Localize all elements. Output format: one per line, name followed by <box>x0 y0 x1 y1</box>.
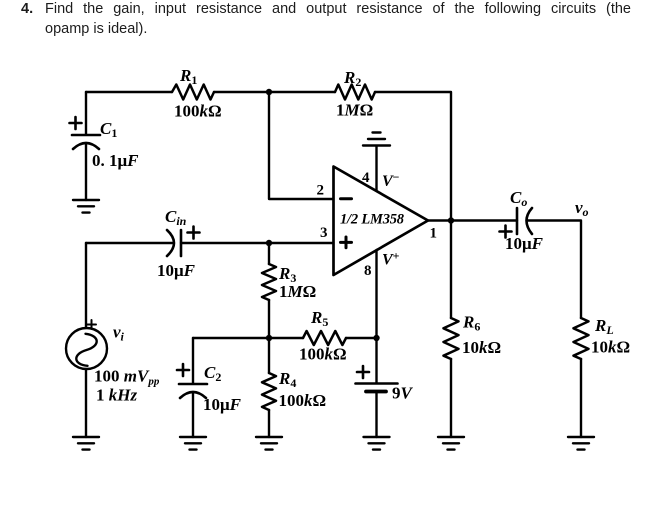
node A (R1/R2/pin-2 junction) <box>266 89 272 95</box>
capacitor C2 curved plate <box>180 392 206 398</box>
svg-text:0. 1μF: 0. 1μF <box>92 151 139 170</box>
battery V1 plus sign <box>357 366 369 378</box>
svg-text:R1: R1 <box>179 66 197 87</box>
battery short plate (-) <box>366 390 386 394</box>
wire: R2 right to output column corner <box>375 92 451 221</box>
wire: top-left corner C1 top to R1 left <box>86 91 172 93</box>
ground (vi) <box>73 437 99 450</box>
ground (RL) <box>568 437 594 450</box>
svg-text:100kΩ: 100kΩ <box>279 391 327 410</box>
svg-text:10kΩ: 10kΩ <box>591 338 630 357</box>
ground (R4) <box>256 437 282 450</box>
resistor R3 <box>262 264 276 300</box>
ground (V-, inverted above op-amp) <box>363 133 390 146</box>
svg-text:R6: R6 <box>462 313 480 334</box>
svg-text:1MΩ: 1MΩ <box>336 101 373 120</box>
svg-text:1MΩ: 1MΩ <box>279 282 316 301</box>
op-amp U1 (1/2 LM358) triangle <box>334 167 429 276</box>
capacitor Co curved plate <box>527 208 533 234</box>
battery long plate (+) <box>356 382 398 385</box>
node C (R3/R4/R5/C2 junction) <box>266 335 272 341</box>
plus sign (Cin) <box>188 227 200 239</box>
wire: R5 right to node D <box>346 337 377 339</box>
svg-text:2: 2 <box>317 183 325 199</box>
capacitor C1 wire from top wire <box>85 92 87 134</box>
svg-text:vi: vi <box>113 323 125 344</box>
wire: Co to vo corner and down <box>528 221 581 319</box>
capacitor Cin curved plate <box>167 230 174 256</box>
wire: vi column down from input row <box>85 243 87 328</box>
svg-text:100kΩ: 100kΩ <box>299 345 347 364</box>
plus sign (non-inverting input) <box>341 237 352 248</box>
svg-text:4: 4 <box>362 170 370 186</box>
svg-text:1: 1 <box>430 226 438 242</box>
wire: Cin to op-amp pin 3 (through node B) <box>181 242 334 244</box>
wire: node C down to R4 <box>268 338 270 373</box>
svg-text:10μF: 10μF <box>157 261 196 280</box>
capacitor C2 top plate <box>179 383 207 386</box>
wire: battery to ground <box>375 392 377 437</box>
wire: op-amp output to Co <box>428 219 517 221</box>
minus sign (inverting input) <box>341 197 352 200</box>
wire: output node down to R6 <box>450 221 452 319</box>
node D (R5/V+ battery junction) <box>373 335 379 341</box>
svg-text:3: 3 <box>320 225 328 241</box>
wire: R3 bottom to node C <box>268 300 270 338</box>
wire: C1 bottom to ground <box>85 145 87 200</box>
wire: node A down and right to op-amp pin 2 <box>269 92 334 199</box>
svg-text:100 mVpp: 100 mVpp <box>94 367 160 388</box>
ground (R6) <box>438 437 464 450</box>
svg-text:RL: RL <box>594 316 614 337</box>
capacitor Cin flat plate <box>180 230 183 256</box>
plus sign (vi) <box>87 320 96 329</box>
capacitor C2 wire down <box>192 338 194 383</box>
ground (C1) <box>73 200 99 213</box>
svg-text:R5: R5 <box>310 308 328 329</box>
svg-text:Co: Co <box>510 188 527 209</box>
svg-text:V+: V+ <box>382 249 400 269</box>
wire: R6 to ground <box>450 359 452 437</box>
capacitor C1 curved plate <box>73 143 99 149</box>
svg-text:C2: C2 <box>204 363 221 384</box>
wire: R1 right to R2 left (through node A) <box>214 91 335 93</box>
plus sign (C2) <box>177 364 189 376</box>
svg-text:8: 8 <box>364 263 372 279</box>
wire: pin 8 down through node D to battery <box>375 250 377 383</box>
wire: C2 top to node C <box>193 337 269 339</box>
wire: pin 4 up to V- ground <box>375 146 377 191</box>
svg-text:10μF: 10μF <box>505 234 544 253</box>
capacitor C1 top plate <box>72 134 100 137</box>
svg-text:C1: C1 <box>100 119 117 140</box>
svg-text:10μF: 10μF <box>203 395 242 414</box>
resistor R5 <box>303 331 346 345</box>
wire: RL to ground <box>580 359 582 437</box>
resistor RL <box>574 318 589 359</box>
plus sign (Co) <box>500 226 512 238</box>
svg-text:10kΩ: 10kΩ <box>462 338 501 357</box>
resistor R4 <box>262 373 276 410</box>
resistor R1 <box>172 85 214 100</box>
capacitor Co flat plate <box>516 208 519 234</box>
wire: R4 bottom to ground <box>268 410 270 437</box>
svg-text:R2: R2 <box>343 68 361 89</box>
ground (battery) <box>364 437 390 450</box>
resistor R6 <box>444 318 459 359</box>
svg-text:R4: R4 <box>278 369 296 390</box>
wire: C2 bottom to ground <box>192 394 194 437</box>
svg-text:9V: 9V <box>392 384 414 403</box>
resistor R2 <box>335 85 375 100</box>
source vi (sine source) <box>66 328 107 369</box>
node B (Cin/R3/pin-3 junction) <box>266 240 272 246</box>
ground (C2) <box>180 437 206 450</box>
svg-text:V−: V− <box>382 170 400 190</box>
svg-text:vo: vo <box>575 198 589 219</box>
wire: node C right to R5 <box>269 337 303 339</box>
node E (output junction) <box>448 217 454 223</box>
wire: input row left, from vi column to Cin <box>86 242 172 244</box>
sine wave (vi) <box>76 334 96 366</box>
svg-text:1 kHz: 1 kHz <box>96 386 137 405</box>
svg-text:100kΩ: 100kΩ <box>174 102 222 121</box>
svg-text:Cin: Cin <box>165 207 187 228</box>
plus sign (C1) <box>70 117 82 129</box>
svg-text:1/2 LM358: 1/2 LM358 <box>340 212 405 228</box>
wire: vi bottom to ground <box>85 369 87 437</box>
wire: node B down to R3 <box>268 243 270 264</box>
